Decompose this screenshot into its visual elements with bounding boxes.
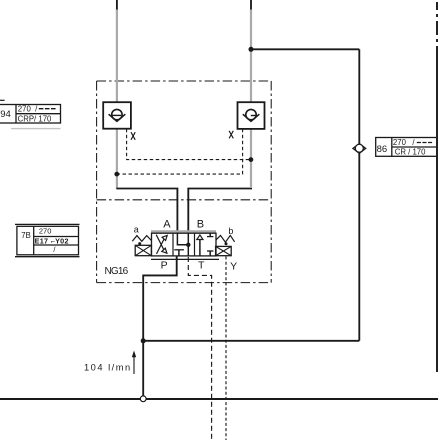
wire: Y drain line (dashed) xyxy=(225,257,227,440)
svg-text:A: A xyxy=(163,218,171,230)
wire: supply line left (gray) xyxy=(117,9,251,188)
wire: tank/main bottom line xyxy=(0,398,438,400)
enclosure block outline (chain line) xyxy=(97,81,272,283)
solenoid b coil xyxy=(216,246,232,255)
svg-text:Y: Y xyxy=(230,261,237,273)
frame border right edge xyxy=(436,2,438,372)
directional valve U1 NG16 : gray position bar xyxy=(151,230,216,232)
valve right position: arrow up, blocked ports xyxy=(197,233,214,256)
node pilot junction left xyxy=(114,172,119,177)
check valve V2 (pilot operated, right) xyxy=(238,102,265,129)
svg-text:94: 94 xyxy=(0,109,11,120)
node connection circle xyxy=(140,396,146,402)
wire: top stubs (black) xyxy=(117,0,251,10)
svg-text:CR / 170: CR / 170 xyxy=(395,147,426,156)
spring right xyxy=(216,235,235,242)
node junction at top xyxy=(249,47,254,52)
valve left position: crossed arrows xyxy=(156,235,167,254)
svg-text:E17 ⌐Y02: E17 ⌐Y02 xyxy=(35,237,69,246)
label X left xyxy=(131,132,135,140)
svg-text:86: 86 xyxy=(377,144,388,155)
directional valve U1 body xyxy=(152,233,217,256)
spring left xyxy=(132,236,151,242)
svg-text:CRP/ 170: CRP/ 170 xyxy=(18,114,52,123)
svg-text:P: P xyxy=(161,259,168,271)
wire: pressure branch to measuring point xyxy=(143,49,359,341)
svg-text:b: b xyxy=(228,226,233,236)
wire: A line to valve xyxy=(116,189,177,234)
check valve V1 (pilot operated, left) xyxy=(103,102,131,129)
node A-B junction xyxy=(186,243,190,247)
wire: T drain line (dashed) xyxy=(188,257,211,440)
node junction P line xyxy=(141,338,146,343)
pilot line X from V2 (dashed, crosses to left line) xyxy=(117,129,243,174)
table 94 cross reference xyxy=(0,105,61,124)
svg-text:104 l/mn: 104 l/mn xyxy=(84,362,132,372)
svg-text:a: a xyxy=(134,224,139,234)
svg-text:B: B xyxy=(197,218,204,230)
svg-text:NG16: NG16 xyxy=(105,266,129,277)
pilot line X from V1 (dashed, crosses to right line) xyxy=(127,129,251,160)
label X right xyxy=(229,131,233,139)
table 86 cross reference xyxy=(376,138,438,157)
svg-text:7B: 7B xyxy=(21,231,31,240)
wire: B line to valve xyxy=(188,189,252,234)
svg-text:T: T xyxy=(198,259,205,271)
solenoid a coil xyxy=(135,245,151,255)
flow arrow 104 l/mn xyxy=(84,351,136,375)
valve centre position: A,B to T, P blocked xyxy=(174,233,188,256)
wire: P line xyxy=(143,256,177,396)
measuring point MP (diamond with circle) xyxy=(353,144,366,154)
table 7B device tag xyxy=(15,224,80,256)
svg-text:270 /: 270 / xyxy=(18,105,38,114)
svg-text:270: 270 xyxy=(39,227,52,236)
valve baseplate line xyxy=(151,258,219,260)
node pilot junction right xyxy=(249,157,254,162)
svg-text:270 /: 270 / xyxy=(393,138,416,147)
